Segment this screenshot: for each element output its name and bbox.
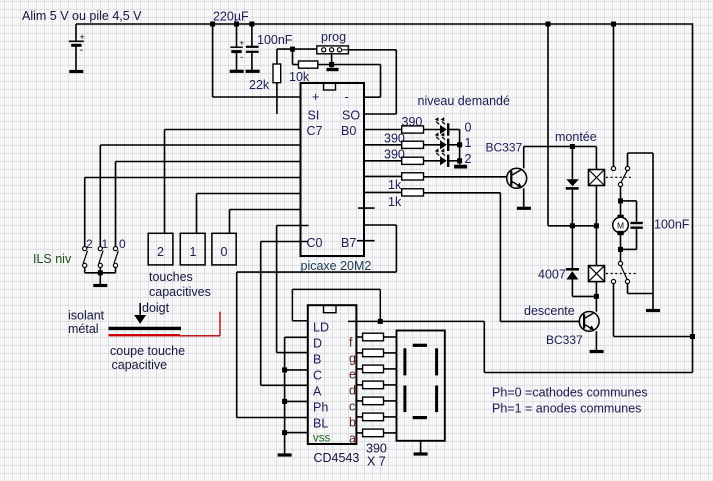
wire ILS to ground [99,273,101,284]
label Alim 5 V ou pile 4,5 V [22,9,142,23]
label coupe touche capacitive [110,344,185,372]
wire coupe touche red [180,312,220,336]
resistor 390 row 0 [402,126,424,133]
label Ph=1 anodes communes [492,402,641,416]
label segment d [349,383,356,397]
pin stub B7 [357,240,375,242]
wire montee collector [524,147,597,169]
diode 4007 flyback descente [566,226,597,297]
junction serial-in [290,47,295,52]
wire pin to ILS 1 [100,145,300,247]
wire +V down to relay common [548,24,596,226]
wire +V to picaxe plus pin [213,24,301,97]
touch pad 0 [212,233,236,265]
resistor 1k montee [402,173,424,180]
label niveau 0 [465,121,472,135]
connector prog [317,46,349,54]
ic U2 CD4543 [308,305,357,444]
resistor 22k [273,49,281,114]
svg-text:-: - [80,45,83,56]
pin e stub [356,368,362,370]
svg-text:c: c [349,399,355,413]
svg-text:1: 1 [190,245,197,259]
ground 100nF [246,70,260,73]
svg-text:C: C [313,369,322,383]
resistor 1k descente [402,189,424,196]
label segment b [349,415,356,429]
svg-text:métal: métal [68,322,99,336]
junction prog ground [329,62,334,67]
wire segment d to display [384,384,397,386]
svg-text:X 7: X 7 [367,455,386,469]
label niveau 1 [465,136,472,150]
label 100nF motor [654,218,690,232]
svg-text:BC337: BC337 [486,141,523,155]
pin Ph stub [285,400,308,402]
junction C grounded [282,367,287,372]
wire segment c to display [384,400,397,402]
ground 220uF [230,70,244,73]
pin f stub [356,336,362,338]
ground descente emitter [590,350,604,353]
junction Ph grounded [282,399,287,404]
wire segment a to display [384,432,397,434]
label prog [321,30,346,44]
ground LED bus [454,165,467,169]
svg-text:Ph=0 =cathodes communes: Ph=0 =cathodes communes [492,386,648,400]
wire LD tie to Vdd [292,289,380,321]
svg-text:B0: B0 [341,124,356,138]
label segment e [349,367,356,381]
switch ILS 1 [98,247,103,273]
label segment g [349,351,356,365]
capacitor 220uF [230,24,244,70]
svg-text:niveau demandé: niveau demandé [418,94,510,108]
wire serial-in node [277,48,317,50]
junction relay montee bottom [594,223,599,228]
svg-text:a: a [349,431,356,445]
wire segment e to display [384,368,397,370]
wire pin to 1k descente [364,191,402,193]
ground battery [69,70,83,73]
wire switch descente NC to ground line [628,284,654,294]
svg-text:capacitive: capacitive [112,358,168,372]
wire prog to SO [348,50,396,114]
label picaxe 20M2 [301,259,372,273]
resistor 390 segment b [363,413,384,421]
resistor 390 segment c [363,397,384,405]
ground ILS [93,284,107,287]
linkage descente dotted [606,273,636,275]
junction Vdd-LD [378,319,383,324]
pin c stub [356,400,362,402]
junction rail-picaxe supply [210,22,215,27]
junction rail switch branch [611,22,616,27]
label doigt [142,301,170,315]
svg-text:C0: C0 [307,236,323,250]
pin b stub [356,416,362,418]
svg-text:0: 0 [221,245,228,259]
junction right rail [690,334,695,339]
wire 1k to montee base [424,176,507,178]
battery BT1 [69,24,85,70]
ic U1 picaxe 20M2 [301,83,365,256]
wire montee emitter [523,188,525,207]
junction rail montee branch [546,22,551,27]
svg-text:ILS niv: ILS niv [33,252,72,266]
resistor 390 row 2 [402,157,424,164]
wire 390 to LED 0 [424,129,441,131]
label 1k montee [388,178,402,192]
switch ILS 2 [83,247,88,273]
svg-text:B: B [313,353,321,367]
diode flyback montee [566,147,579,226]
svg-text:Alim 5 V ou pile 4,5 V: Alim 5 V ou pile 4,5 V [22,9,142,23]
ground display [414,452,428,455]
svg-text:prog: prog [321,30,346,44]
svg-text:-: - [345,90,349,104]
wire pin to ILS 0 [116,162,301,247]
svg-text:g: g [349,351,356,365]
svg-text:e: e [349,367,356,381]
label CD4543 [314,451,360,465]
label 390 row 2 [384,148,405,162]
label metal [68,322,99,336]
label segment c [349,399,355,413]
wire LED cathode bus [459,130,461,165]
pin d stub [356,384,362,386]
label descente [524,304,575,318]
junction descente collector [594,294,599,299]
pin C stub [285,369,308,371]
svg-text:A: A [313,385,322,399]
svg-text:Ph: Ph [313,401,328,415]
label segment a [349,431,356,445]
label isolant [68,309,105,323]
svg-text:doigt: doigt [142,301,170,315]
ground switches [646,309,660,312]
label 390 row 1 [384,132,405,146]
svg-text:LD: LD [313,321,329,335]
wire CD4543 ground bus [285,337,308,453]
wire switch descente NO to +V [614,284,693,337]
svg-text:M: M [617,220,624,230]
label niveau 2 [465,152,472,166]
touch pad 2 [148,233,173,265]
pin vss stub [285,432,308,434]
svg-text:2: 2 [465,152,472,166]
svg-text:B7: B7 [341,236,356,250]
wire segment g to display [384,352,397,354]
label BC337 descente [546,333,583,347]
junction motor bottom [618,247,623,252]
wire +V to switch montee [613,24,615,166]
node +V supply rail [76,23,693,25]
resistor 390 segment a [363,429,384,437]
svg-text:capacitives: capacitives [149,285,211,299]
svg-text:Ph=1 = anodes communes: Ph=1 = anodes communes [492,402,641,416]
svg-text:220µF: 220µF [213,10,249,24]
svg-text:BL: BL [313,417,328,431]
wire CD4543 Vdd feed [348,320,484,322]
wire 1k to descente base [424,193,580,322]
wire ground node to picaxe minus pin [364,65,381,98]
svg-text:descente: descente [524,304,575,318]
wire descente collector [595,296,597,311]
segment upper-right [435,348,438,375]
svg-text:4007: 4007 [538,268,566,282]
label 4007 [538,268,566,282]
svg-text:-: - [240,52,243,62]
label Ph=0 cathodes communes [492,386,648,400]
svg-text:+: + [240,39,245,48]
pin stub picaxe right 208 [358,207,375,209]
label montee [555,130,597,144]
label 10k [289,70,310,84]
resistor 390 segment g [363,349,384,357]
wire pin C7 to touch pad 2 [165,130,301,234]
svg-text:22k: 22k [249,78,270,92]
junction montee wire diode [570,144,575,149]
svg-text:0: 0 [465,121,472,135]
svg-text:touches: touches [149,270,193,284]
led D2 [435,148,449,167]
svg-text:SO: SO [342,109,360,123]
label 220uF [213,10,249,24]
svg-text:1: 1 [465,136,472,150]
transistor Q1 BC337 montee [507,168,527,188]
svg-text:+: + [312,90,319,104]
relay coil descente [589,266,605,297]
resistor 390 segment e [363,365,384,373]
svg-text:D: D [313,337,322,351]
wire motor bottom [620,235,622,262]
wire pin B2 out [364,160,402,162]
label touches capacitives [149,270,211,299]
svg-text:CD4543: CD4543 [314,451,360,465]
svg-text:2: 2 [157,245,164,259]
svg-text:390: 390 [366,442,387,456]
wire pin to ILS 2 [85,178,301,247]
ground montee emitter [517,207,531,210]
label BC337 montee [486,141,523,155]
segment lower-right [435,386,438,413]
svg-text:d: d [349,383,356,397]
display 7-segment [397,331,445,441]
junction ILS common [98,270,103,275]
wire 10k to ground node [318,64,381,66]
svg-text:f: f [349,336,353,350]
svg-text:isolant: isolant [68,309,105,323]
switch ILS 0 [113,247,118,273]
led D1 [435,132,449,151]
motor M1 [613,215,629,235]
segment bottom [413,416,427,419]
wire pin B0 out [364,129,402,131]
svg-text:picaxe 20M2: picaxe 20M2 [301,259,372,273]
svg-text:vss: vss [313,433,331,445]
label 22k [249,78,270,92]
svg-text:coupe touche: coupe touche [110,344,185,358]
segment upper-left [403,348,406,375]
segment lower-left [403,386,406,413]
wire switch ground line [652,153,654,309]
label ILS 1 [102,237,109,251]
ground prog [327,68,339,71]
svg-text:C7: C7 [307,124,323,138]
wire descente emitter [595,331,597,350]
junction diode montee bottom [570,223,575,228]
wire pin B1 out [364,144,402,146]
svg-text:b: b [349,415,356,429]
wire LED 2 cathode [448,160,459,162]
wire LED 1 cathode [448,144,459,146]
wire prog middle pin down [331,54,333,68]
switch descente [611,261,629,283]
wire LED 0 cathode [448,129,459,131]
svg-text:SI: SI [308,109,320,123]
svg-text:100nF: 100nF [257,33,293,47]
junction vss grounded [282,430,287,435]
pin g stub [356,352,362,354]
plate metal [109,327,182,330]
wire pin C0 to CD4543 A [261,242,309,386]
segment top [413,344,427,347]
label 1k descente [388,195,402,209]
label ILS 2 [86,237,93,251]
svg-text:montée: montée [555,130,597,144]
wire +V right side drop [484,23,692,372]
svg-text:10k: 10k [289,70,310,84]
junction cathode bus 2 [457,158,462,163]
resistor 390 segment d [363,381,384,389]
resistor 390 row 1 [402,141,424,148]
label 390 X 7 [366,442,387,469]
label 390 row 0 [402,115,423,129]
wire switch montee NC to ground line [628,153,654,166]
junction cathode bus 1 [457,142,462,147]
capacitor 100nF decoupling [246,24,259,70]
resistor 10k [293,49,318,68]
switch montee [611,166,629,186]
wire segment b to display [384,416,397,418]
label ILS 0 [119,237,126,251]
relay coil montee [589,147,605,226]
junction rail-220uF [234,22,239,27]
ground CD4543 vss [278,453,292,456]
wire 390 to LED 2 [424,160,441,162]
wire relay montee to descente [595,226,597,266]
wire motor top [620,187,622,215]
label niveau demande [418,94,510,108]
svg-text:0: 0 [119,237,126,251]
svg-text:BC337: BC337 [546,333,583,347]
capacitor 100nF motor [621,201,643,250]
svg-text:1k: 1k [388,178,402,192]
junction motor top [618,198,623,203]
wire pin to touch pad 0 [230,210,301,234]
wire picaxe pin to CD4543 B [277,226,309,353]
wire display common [420,441,422,453]
plate isolant red [109,334,181,336]
arrow doigt [134,303,146,324]
resistor 390 segment f [363,333,384,341]
label segment f [349,336,353,350]
wire segment f to display [384,336,397,338]
label 100nF decoupling [257,33,293,47]
wire 390 to LED 1 [424,144,441,146]
linkage montee dotted [606,176,633,178]
wire pin to 1k montee [364,175,402,177]
label ILS niv [33,252,72,266]
touch pad 1 [180,233,205,265]
wire ILS common [85,272,116,274]
led D0 [435,117,449,136]
junction rail-100nF [249,22,254,27]
svg-text:100nF: 100nF [654,218,690,232]
pin a stub [356,432,362,434]
wire picaxe to CD4543 BL [237,225,397,418]
transistor Q2 BC337 descente [579,312,599,332]
svg-text:1k: 1k [388,195,402,209]
svg-text:+: + [80,32,85,42]
wire pin to touch pad 1 [197,194,301,234]
